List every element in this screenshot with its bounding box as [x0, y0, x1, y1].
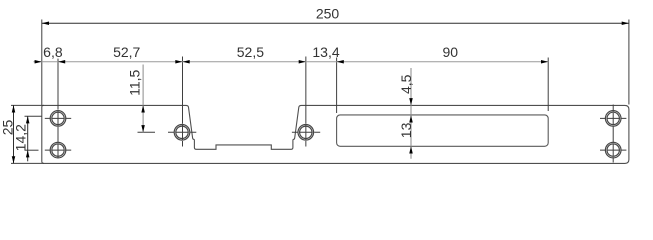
svg-text:14,2: 14,2: [13, 124, 29, 151]
svg-text:250: 250: [316, 6, 340, 22]
svg-text:13: 13: [398, 122, 414, 138]
svg-text:11,5: 11,5: [127, 69, 143, 95]
svg-text:52,5: 52,5: [237, 44, 264, 60]
svg-text:90: 90: [443, 44, 459, 60]
svg-text:13,4: 13,4: [312, 44, 339, 60]
svg-text:4,5: 4,5: [398, 74, 414, 94]
svg-text:6,8: 6,8: [43, 44, 63, 60]
svg-text:52,7: 52,7: [113, 44, 140, 60]
